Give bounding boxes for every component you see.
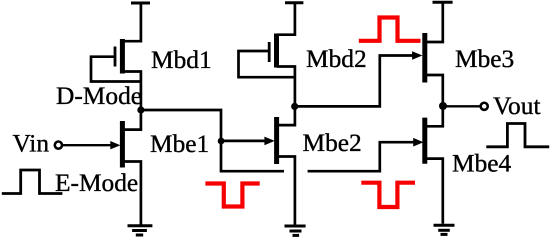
- svg-text:Vin: Vin: [13, 130, 50, 158]
- svg-text:Vout: Vout: [493, 92, 541, 120]
- svg-text:Mbe2: Mbe2: [303, 129, 362, 157]
- svg-text:Mbe3: Mbe3: [455, 45, 514, 73]
- svg-text:Mbd1: Mbd1: [151, 46, 212, 74]
- svg-text:E-Mode: E-Mode: [55, 169, 138, 197]
- svg-text:Mbd2: Mbd2: [306, 45, 367, 73]
- svg-text:Mbe4: Mbe4: [452, 150, 512, 178]
- svg-text:D-Mode: D-Mode: [56, 82, 142, 110]
- svg-text:Mbe1: Mbe1: [150, 130, 209, 158]
